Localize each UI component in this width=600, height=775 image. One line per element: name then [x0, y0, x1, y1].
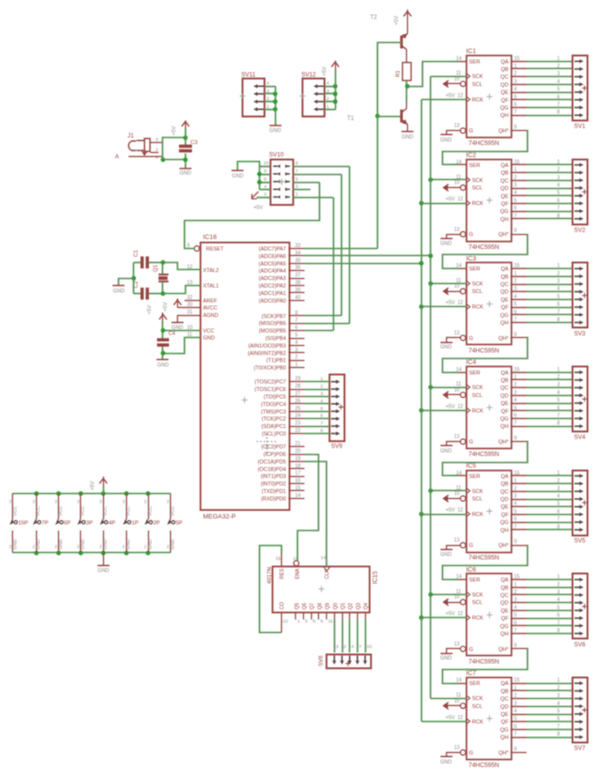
serial chain wire IC2 QH* to IC3 SER — [443, 235, 528, 269]
svg-text:QB: QB — [501, 482, 509, 488]
svg-text:QG: QG — [500, 209, 508, 215]
svg-text:5: 5 — [557, 190, 560, 196]
IC3 SCK wire from clock bus — [431, 283, 467, 285]
svg-text:VCC: VCC — [58, 505, 63, 516]
svg-text:QF: QF — [501, 409, 509, 415]
svg-text:IC5: IC5 — [466, 463, 477, 470]
svg-text:4: 4 — [351, 644, 354, 650]
svg-text:RCK: RCK — [472, 512, 484, 518]
IC6 SCK wire from clock bus — [431, 594, 467, 596]
svg-text:37: 37 — [295, 273, 301, 279]
svg-text:SV4: SV4 — [574, 435, 586, 441]
switch 5P — [167, 494, 183, 553]
svg-text:GND: GND — [113, 288, 125, 294]
IC7 pin SCL inversion bubble and +5V arrow — [444, 702, 466, 709]
svg-text:4: 4 — [514, 709, 517, 715]
IC1 pin G bubble and wire to ground — [447, 128, 466, 135]
svg-text:1: 1 — [296, 192, 299, 197]
svg-text:11: 11 — [328, 619, 333, 625]
IC3 RCK wire from latch bus, net label +5V — [422, 300, 467, 306]
IC5 SCK wire from clock bus — [431, 490, 467, 492]
svg-text:(INT1)PD3: (INT1)PD3 — [261, 474, 286, 480]
IC4 output wires QA-QH to SV4 — [511, 367, 573, 427]
svg-text:QE: QE — [501, 505, 509, 511]
svg-text:CO: CO — [280, 602, 286, 610]
wire base bus T2 base — [378, 43, 402, 117]
svg-text:IC15: IC15 — [372, 570, 379, 584]
svg-text:QE: QE — [501, 297, 509, 303]
svg-text:3: 3 — [167, 499, 170, 504]
svg-text:QE: QE — [501, 401, 509, 407]
svg-text:Q4: Q4 — [364, 603, 370, 610]
svg-text:1: 1 — [327, 104, 330, 109]
svg-text:SER: SER — [469, 370, 480, 376]
wire PB6 row — [305, 323, 350, 325]
svg-text:QF: QF — [501, 305, 509, 311]
svg-text:XTAL1: XTAL1 — [203, 284, 219, 290]
svg-text:6: 6 — [557, 509, 560, 515]
IC7 output wires QA-QH to SV7 — [511, 678, 573, 738]
svg-text:4P: 4P — [109, 521, 116, 527]
connector SV10 header 2x5 — [269, 153, 293, 205]
svg-text:Q7: Q7 — [310, 603, 316, 610]
svg-text:G: G — [469, 336, 473, 342]
svg-text:15: 15 — [514, 678, 520, 684]
svg-text:IC2: IC2 — [466, 152, 477, 159]
svg-text:3: 3 — [557, 175, 560, 181]
connector SV9 header — [320, 375, 344, 451]
svg-text:VCC: VCC — [170, 505, 175, 516]
svg-text:2: 2 — [156, 147, 159, 153]
svg-text:2: 2 — [557, 271, 560, 277]
svg-text:31: 31 — [187, 310, 193, 316]
svg-text:(OC1B)PD4: (OC1B)PD4 — [258, 467, 286, 473]
svg-text:1: 1 — [557, 678, 560, 684]
IC2 RCK wire from latch bus, net label +5V — [422, 197, 467, 204]
IC7 SCK wire from clock bus — [431, 698, 467, 700]
svg-text:4: 4 — [557, 79, 560, 85]
switch 15P — [9, 494, 28, 553]
svg-text:QC: QC — [500, 489, 508, 495]
wire T1 emitter to ground — [407, 125, 409, 132]
+5V supply arrow at T2 — [407, 10, 409, 19]
svg-text:12: 12 — [458, 508, 464, 514]
svg-text:7: 7 — [296, 168, 299, 173]
svg-text:8: 8 — [557, 524, 560, 530]
svg-text:QH: QH — [500, 113, 508, 119]
svg-text:5: 5 — [514, 302, 517, 308]
svg-text:4: 4 — [267, 81, 270, 86]
connector SV8 — [319, 655, 372, 669]
crystal Q1 — [153, 263, 169, 294]
svg-text:GND: GND — [58, 538, 63, 549]
ground symbol at T1 — [402, 132, 414, 141]
svg-text:SCK: SCK — [472, 282, 483, 288]
svg-text:(AIN0/INT2)PB2: (AIN0/INT2)PB2 — [248, 351, 286, 357]
svg-text:12: 12 — [283, 619, 289, 625]
+5V supply arrow on AVCC pin — [163, 299, 201, 312]
svg-text:+5V: +5V — [446, 197, 456, 203]
wire PB7 row — [305, 315, 342, 317]
IC15 CLK clock mark — [323, 566, 331, 571]
svg-text:5: 5 — [295, 333, 298, 339]
IC4 pin QH* wire — [511, 441, 527, 443]
svg-text:4: 4 — [557, 701, 560, 707]
IC5 output wires QA-QH to SV5 — [511, 470, 573, 530]
serial chain wire IC3 QH* to IC4 SER — [443, 338, 528, 373]
svg-text:IC16: IC16 — [203, 234, 217, 241]
svg-text:QC: QC — [500, 75, 508, 81]
svg-text:+5V: +5V — [446, 508, 456, 514]
svg-text:SV3: SV3 — [574, 331, 586, 337]
svg-text:+5V: +5V — [394, 15, 400, 25]
svg-text:VCC: VCC — [36, 505, 41, 516]
svg-text:3: 3 — [557, 486, 560, 492]
svg-text:6: 6 — [557, 405, 560, 411]
svg-text:QH: QH — [500, 735, 508, 741]
switch 6P — [55, 491, 71, 555]
svg-text:R1: R1 — [396, 70, 402, 77]
svg-text:QA: QA — [501, 163, 509, 169]
svg-text:GND: GND — [157, 362, 169, 368]
svg-text:3: 3 — [336, 644, 339, 650]
svg-text:QE: QE — [501, 194, 509, 200]
svg-text:(RXD)PD0: (RXD)PD0 — [261, 496, 286, 502]
svg-text:2: 2 — [327, 96, 330, 101]
svg-text:2: 2 — [557, 167, 560, 173]
IC16 VCC wire — [163, 330, 201, 332]
connector SV6 — [573, 574, 588, 649]
svg-text:7: 7 — [557, 206, 560, 212]
IC16 AREF pin stub — [185, 300, 201, 302]
svg-text:2: 2 — [557, 375, 560, 381]
svg-text:Q1: Q1 — [341, 603, 347, 610]
svg-text:SV6: SV6 — [574, 642, 586, 648]
svg-text:3: 3 — [296, 184, 299, 189]
IC4 pin G bubble and wire to ground — [447, 439, 466, 446]
svg-text:QG: QG — [500, 624, 508, 630]
IC2 pin QH* wire — [511, 234, 527, 236]
svg-text:5: 5 — [557, 294, 560, 300]
junction T1 base — [375, 114, 380, 119]
svg-text:QH: QH — [500, 424, 508, 430]
IC3 output wires QA-QH to SV3 — [511, 263, 573, 323]
svg-text:3: 3 — [9, 499, 12, 504]
svg-text:13: 13 — [454, 123, 460, 129]
connector SV4 — [573, 367, 588, 442]
svg-text:8: 8 — [264, 168, 267, 173]
svg-text:QF: QF — [501, 201, 509, 207]
svg-text:2: 2 — [557, 478, 560, 484]
transistor T1 NPN — [347, 109, 408, 125]
IC1 pin SER wire — [451, 61, 459, 63]
svg-text:QB: QB — [501, 585, 509, 591]
crosshair artifact — [257, 434, 278, 454]
svg-text:1: 1 — [267, 104, 270, 109]
svg-text:GND: GND — [440, 241, 452, 247]
IC3 pin G bubble and wire to ground — [447, 335, 466, 342]
svg-text:QF: QF — [501, 512, 509, 518]
svg-text:(ADC6)PA6: (ADC6)PA6 — [259, 254, 286, 260]
svg-text:GND: GND — [126, 538, 131, 549]
switch 7P — [33, 491, 49, 555]
svg-text:74HC595N: 74HC595N — [469, 451, 500, 458]
svg-text:VCC: VCC — [147, 505, 152, 516]
IC3 pin SCL inversion bubble and +5V arrow — [444, 288, 466, 295]
svg-text:3: 3 — [557, 71, 560, 77]
IC1 pin QH* wire — [511, 130, 527, 132]
svg-text:7: 7 — [295, 318, 298, 324]
svg-text:SER: SER — [469, 681, 480, 687]
connector J1 power jack — [128, 134, 163, 161]
svg-text:1: 1 — [557, 159, 560, 165]
IC1 RCK wire from latch bus, net label +5V — [422, 93, 467, 100]
svg-text:5: 5 — [557, 87, 560, 93]
wire PA5 to latch bus — [305, 261, 424, 266]
svg-text:9: 9 — [514, 125, 517, 131]
wire T2 collector to R1 — [406, 50, 408, 63]
svg-text:QH: QH — [500, 217, 508, 223]
svg-text:SCK: SCK — [472, 593, 483, 599]
IC1 SCK wire from clock bus — [431, 76, 467, 78]
svg-text:SER: SER — [469, 474, 480, 480]
svg-text:9: 9 — [514, 747, 517, 753]
svg-text:QA: QA — [501, 474, 509, 480]
svg-text:SV10: SV10 — [269, 153, 284, 159]
svg-text:10: 10 — [367, 644, 373, 650]
capacitor C1 — [134, 250, 163, 268]
IC4 pin SCL inversion bubble and +5V arrow — [444, 391, 466, 398]
svg-text:1: 1 — [156, 155, 159, 161]
svg-text:(TOSC2)PC7: (TOSC2)PC7 — [255, 380, 286, 386]
svg-text:QA: QA — [501, 267, 509, 273]
svg-text:IC1: IC1 — [466, 48, 477, 55]
svg-text:SV8: SV8 — [319, 656, 325, 667]
svg-text:RES: RES — [280, 568, 286, 579]
svg-text:2: 2 — [557, 64, 560, 70]
svg-text:3P: 3P — [86, 521, 93, 527]
svg-text:7: 7 — [557, 620, 560, 626]
svg-text:SV2: SV2 — [574, 228, 586, 234]
IC3 74HC595 shift register — [454, 255, 512, 354]
svg-text:(ADC4)PA4: (ADC4)PA4 — [259, 269, 286, 275]
svg-text:74HC595N: 74HC595N — [469, 658, 500, 665]
svg-text:ENA: ENA — [295, 568, 301, 579]
wire SV10 pin 1 to PB5 — [333, 198, 335, 331]
svg-text:QG: QG — [500, 727, 508, 733]
svg-text:GND: GND — [180, 171, 192, 177]
svg-text:7: 7 — [557, 517, 560, 523]
svg-text:GND: GND — [440, 137, 452, 143]
IC2 SCK wire from clock bus — [431, 179, 467, 181]
microcontroller IC16 MEGA32-P — [201, 234, 290, 521]
svg-text:5: 5 — [557, 398, 560, 404]
svg-text:VCC: VCC — [80, 505, 85, 516]
svg-text:2: 2 — [344, 644, 347, 650]
svg-text:1: 1 — [557, 263, 560, 269]
svg-text:SER: SER — [469, 163, 480, 169]
svg-text:7: 7 — [557, 413, 560, 419]
wire SV10 pin 7 to PB7 — [341, 175, 343, 316]
svg-text:(TXD)PD1: (TXD)PD1 — [262, 489, 286, 495]
svg-text:SV5: SV5 — [574, 539, 586, 545]
wire SV10 pin 9 to PB6 — [349, 167, 351, 324]
svg-text:Q6: Q6 — [302, 603, 308, 610]
svg-text:(MISO)PB6: (MISO)PB6 — [259, 321, 286, 327]
svg-text:13: 13 — [454, 538, 460, 544]
svg-text:9: 9 — [296, 161, 299, 166]
svg-text:5P: 5P — [176, 521, 183, 527]
svg-text:15: 15 — [276, 556, 282, 562]
svg-text:SCL: SCL — [472, 289, 483, 295]
wire PD5 to CLK — [305, 462, 327, 567]
svg-text:VCC: VCC — [12, 505, 17, 516]
svg-text:QG: QG — [500, 106, 508, 112]
svg-text:(OC2)PD7: (OC2)PD7 — [261, 445, 286, 451]
svg-text:QD: QD — [500, 497, 508, 503]
svg-text:12: 12 — [458, 715, 464, 721]
svg-text:1: 1 — [557, 470, 560, 476]
IC5 pin SER wire — [451, 475, 459, 477]
wire C1 C2 left to ground — [119, 263, 137, 294]
svg-text:SCK: SCK — [472, 489, 483, 495]
svg-text:SCL: SCL — [472, 704, 483, 710]
wire PD6 to ENA — [298, 455, 319, 561]
svg-text:RCK: RCK — [472, 616, 484, 622]
switch 4P — [99, 491, 115, 555]
svg-text:QC: QC — [500, 593, 508, 599]
IC4 RCK wire from latch bus, net label +5V — [422, 404, 467, 411]
svg-text:6P: 6P — [64, 521, 71, 527]
svg-text:4: 4 — [557, 494, 560, 500]
svg-text:3: 3 — [123, 499, 126, 504]
svg-text:13: 13 — [454, 641, 460, 647]
svg-text:4: 4 — [557, 597, 560, 603]
svg-text:4: 4 — [514, 87, 517, 93]
svg-text:+5V: +5V — [90, 481, 96, 491]
svg-text:SCK: SCK — [472, 178, 483, 184]
svg-text:1P: 1P — [132, 521, 139, 527]
svg-text:28: 28 — [295, 384, 301, 390]
svg-text:4: 4 — [327, 81, 330, 86]
ground symbol at SV11 — [269, 126, 281, 134]
svg-text:GND: GND — [440, 552, 452, 558]
resistor R1 — [396, 63, 412, 81]
svg-text:SER: SER — [469, 59, 480, 65]
svg-text:GND: GND — [232, 173, 244, 179]
svg-text:QG: QG — [500, 313, 508, 319]
svg-text:Q8: Q8 — [317, 603, 323, 610]
IC6 pin QH* wire — [511, 648, 527, 650]
ground symbol below C4 — [157, 360, 170, 369]
svg-text:+5V: +5V — [446, 404, 456, 410]
svg-text:Q0: Q0 — [333, 603, 339, 610]
connector SV3 — [573, 263, 588, 338]
svg-text:Q9: Q9 — [325, 603, 331, 610]
svg-text:9: 9 — [514, 228, 517, 234]
svg-text:8: 8 — [557, 213, 560, 219]
svg-text:8: 8 — [557, 732, 560, 738]
svg-text:QB: QB — [501, 274, 509, 280]
IC15 pin numbers — [276, 555, 373, 650]
svg-text:SV11: SV11 — [241, 73, 256, 79]
IC15 unconnected stub pins — [296, 613, 327, 620]
svg-text:AREF: AREF — [203, 298, 218, 304]
svg-text:GND: GND — [440, 759, 452, 765]
svg-text:QG: QG — [500, 520, 508, 526]
svg-text:AGND: AGND — [203, 313, 218, 319]
svg-text:SER: SER — [469, 267, 480, 273]
svg-text:7: 7 — [514, 732, 517, 738]
IC3 pin QH* wire — [511, 337, 527, 339]
svg-text:12: 12 — [458, 197, 464, 203]
svg-text:10: 10 — [454, 595, 460, 601]
svg-text:74HC595N: 74HC595N — [469, 762, 500, 769]
svg-text:VCC: VCC — [203, 328, 214, 334]
counter IC15 4017N — [267, 567, 379, 613]
svg-text:RCK: RCK — [472, 408, 484, 414]
svg-text:QH: QH — [500, 632, 508, 638]
svg-text:4: 4 — [557, 390, 560, 396]
svg-text:GND: GND — [269, 128, 281, 134]
node XTAL2 wire — [161, 260, 201, 269]
svg-text:SCL: SCL — [472, 497, 483, 503]
wire J1 to +5V node — [163, 138, 186, 143]
IC3 pin SER wire — [451, 268, 459, 270]
wire J1 sleeve to ground node — [161, 143, 186, 163]
svg-text:QD: QD — [500, 186, 508, 192]
wire R1 to T1 collector with junction — [405, 81, 410, 103]
IC7 pin SER wire — [451, 683, 459, 685]
svg-text:SCK: SCK — [472, 74, 483, 80]
shift clock bus vertical wire — [430, 77, 432, 699]
svg-text:5: 5 — [557, 709, 560, 715]
svg-text:74HC595N: 74HC595N — [469, 244, 500, 251]
serial chain wire IC5 QH* to IC6 SER — [443, 546, 528, 580]
wire PA7 to transistor bases — [305, 117, 378, 249]
svg-text:1: 1 — [297, 619, 300, 625]
IC5 pin G bubble and wire to ground — [447, 543, 466, 550]
svg-text:3: 3 — [514, 183, 517, 189]
svg-text:7: 7 — [514, 110, 517, 116]
svg-text:7: 7 — [514, 421, 517, 427]
svg-text:QH*: QH* — [498, 751, 509, 757]
SV10 right wires — [293, 161, 350, 198]
svg-text:(ADC5)PA5: (ADC5)PA5 — [259, 261, 286, 267]
svg-text:GND: GND — [36, 538, 41, 549]
svg-text:QH: QH — [500, 528, 508, 534]
svg-text:QD: QD — [500, 393, 508, 399]
wire SV10 to RESET — [185, 183, 320, 249]
svg-text:3: 3 — [156, 137, 159, 143]
svg-text:7P: 7P — [42, 521, 49, 527]
svg-text:+5V: +5V — [446, 300, 456, 306]
svg-text:GND: GND — [98, 568, 110, 574]
wire PA6 to shift clock bus — [305, 254, 433, 259]
IC6 pin G bubble and wire to ground — [447, 646, 466, 653]
svg-text:XTAL2: XTAL2 — [203, 268, 219, 274]
wires IC16 port C to SV9 — [305, 382, 330, 434]
svg-text:QA: QA — [501, 59, 509, 65]
wire PB5 row — [305, 330, 334, 332]
feedback wire CO to RES — [260, 546, 282, 633]
SV10 bottom left pin to +5V — [252, 192, 271, 212]
svg-text:2P: 2P — [153, 521, 160, 527]
svg-text:GND: GND — [440, 345, 452, 351]
+5V supply arrow at J1 — [171, 121, 189, 146]
svg-text:5: 5 — [557, 501, 560, 507]
svg-text:10: 10 — [454, 180, 460, 186]
